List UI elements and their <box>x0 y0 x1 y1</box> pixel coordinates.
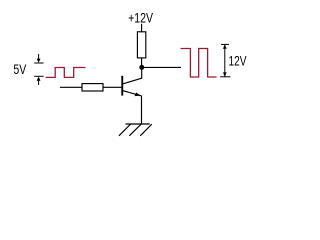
wire emitter down <box>141 96 143 125</box>
input square wave (5V signal, red) <box>46 68 86 78</box>
output wire <box>142 66 181 68</box>
5V top bar <box>34 62 43 64</box>
ground hatch 2 <box>129 124 141 136</box>
12V dimension indicator top bar <box>221 43 229 45</box>
12V arrowhead down <box>223 72 227 76</box>
5V label <box>13 62 27 78</box>
resistor R1 (base) <box>82 84 103 91</box>
output square wave (12V signal, red) <box>181 49 217 78</box>
ground hatch 1 <box>119 124 131 136</box>
svg-text:+12V: +12V <box>128 10 154 26</box>
transistor Q1 collector line <box>123 69 142 84</box>
12V dimension bottom bar <box>220 76 230 78</box>
resistor R2 (collector) <box>137 32 145 58</box>
wire input to base resistor <box>60 86 82 88</box>
transistor Q1 base bar <box>121 76 123 96</box>
+12V label <box>128 10 154 26</box>
ground hatch 3 <box>140 124 152 136</box>
collector node junction dot <box>139 65 144 70</box>
5V dimension arrow top (down arrow) <box>38 54 40 60</box>
ground bar <box>126 123 150 125</box>
12V arrowhead up <box>223 45 227 49</box>
5V dimension arrow bottom (up arrow) <box>38 80 40 86</box>
wire resistor to collector node <box>141 58 143 66</box>
12V label <box>229 53 247 69</box>
wire +12V to collector resistor <box>141 24 143 32</box>
5V bottom bar <box>34 75 43 77</box>
transistor Q1 emitter line <box>123 91 142 96</box>
wire resistor to base <box>103 86 121 88</box>
svg-text:5V: 5V <box>13 62 27 78</box>
transistor Q1 emitter arrowhead <box>135 93 142 97</box>
12V dimension vertical line <box>224 44 226 76</box>
svg-text:12V: 12V <box>229 53 247 69</box>
